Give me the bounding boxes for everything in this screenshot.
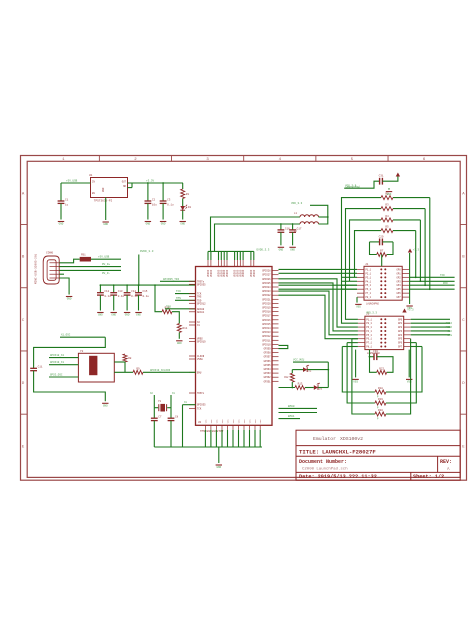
svg-text:GND: GND [102,187,105,192]
svg-text:GND: GND [111,314,116,317]
svg-text:Sheet: 1/2: Sheet: 1/2 [413,474,444,480]
svg-text:GP2: GP2 [398,326,403,329]
svg-text:MISO: MISO [446,326,453,329]
svg-text:GPIO19_X1: GPIO19_X1 [50,361,64,364]
svg-text:GND: GND [177,342,182,345]
svg-text:R20: R20 [378,409,383,412]
svg-text:DVDD_3.3: DVDD_3.3 [140,250,154,253]
svg-text:GND: GND [59,223,64,226]
svg-text:TDO: TDO [166,305,171,308]
svg-text:GPIO4: GPIO4 [264,368,272,371]
svg-text:P5_1: P5_1 [366,334,372,337]
svg-text:GPIO8: GPIO8 [264,352,272,355]
svg-text:10u: 10u [152,203,157,206]
svg-text:XDS100v2: XDS100v2 [340,436,363,442]
svg-text:GPIO3: GPIO3 [264,372,272,375]
svg-text:R18: R18 [378,387,383,390]
svg-text:GPIO2: GPIO2 [264,376,272,379]
svg-text:EMU1: EMU1 [288,415,295,418]
svg-text:VCC_MCU: VCC_MCU [293,359,305,362]
svg-text:GPIO19_XCLKIN: GPIO19_XCLKIN [150,369,171,372]
svg-text:GPIO24: GPIO24 [262,286,271,289]
svg-text:P4_1: P4_1 [366,330,372,333]
svg-text:PU_D+: PU_D+ [102,263,110,266]
svg-text:VSS: VSS [407,381,412,384]
svg-text:P8_1: P8_1 [366,296,372,299]
svg-text:TMS: TMS [176,297,181,300]
svg-text:CLK: CLK [447,330,452,333]
svg-text:C1: C1 [65,198,69,201]
svg-text:TMS320F28027PT: TMS320F28027PT [200,430,224,433]
svg-text:PU_D-: PU_D- [102,272,110,275]
svg-text:OUT: OUT [122,181,127,184]
svg-text:GPIO27: GPIO27 [262,274,271,277]
svg-text:VDD_3.3: VDD_3.3 [366,312,377,315]
svg-text:GP5: GP5 [398,338,403,341]
svg-text:TITLE:: TITLE: [299,448,319,455]
svg-text:C31: C31 [379,175,384,178]
svg-text:R5: R5 [385,226,389,229]
svg-text:GPIO35: GPIO35 [197,404,206,407]
svg-text:GP0: GP0 [398,318,403,321]
svg-text:EMU0: EMU0 [288,405,295,408]
svg-text:DVDD_3.3: DVDD_3.3 [257,248,270,251]
svg-text:GPIO19: GPIO19 [262,307,271,310]
svg-text:+5V_USB: +5V_USB [66,179,78,182]
svg-text:J1: J1 [365,263,369,266]
svg-text:R11: R11 [183,327,188,330]
svg-text:GPIO7: GPIO7 [264,356,272,359]
svg-text:+5V_USB: +5V_USB [98,256,110,259]
svg-text:U3: U3 [198,421,202,424]
svg-text:R4: R4 [385,215,389,218]
svg-text:TRSTn: TRSTn [197,392,205,395]
svg-text:C8: C8 [175,416,179,419]
svg-text:P1_1: P1_1 [366,268,372,271]
svg-text:GPIO12: GPIO12 [262,335,271,338]
svg-text:C29: C29 [379,235,384,238]
svg-text:R13: R13 [298,383,303,386]
svg-text:C13: C13 [118,290,123,293]
svg-text:R8: R8 [128,357,132,360]
svg-text:C15: C15 [143,290,148,293]
svg-text:GP1: GP1 [397,272,402,275]
svg-text:GPIO35: GPIO35 [197,283,206,286]
svg-text:LAUNCHXL-F28027F: LAUNCHXL-F28027F [322,448,376,455]
svg-text:C7: C7 [158,416,162,419]
svg-text:GND: GND [161,223,166,226]
svg-text:C12: C12 [104,290,109,293]
svg-text:GP4: GP4 [398,334,403,337]
svg-text:+3.3: +3.3 [407,309,414,312]
svg-text:C2: C2 [152,198,156,201]
svg-text:GPIO10: GPIO10 [262,343,271,346]
svg-text:R19: R19 [378,398,383,401]
svg-text:R3: R3 [385,204,389,207]
svg-text:Document Number:: Document Number: [299,459,347,465]
svg-text:MINI-USB-32005-201: MINI-USB-32005-201 [35,253,38,284]
svg-text:GND: GND [290,249,295,252]
svg-text:R9: R9 [136,367,140,370]
svg-text:P3_1: P3_1 [366,326,372,329]
svg-text:GPIO23: GPIO23 [262,290,271,293]
svg-text:0.1u: 0.1u [118,295,125,298]
svg-text:VDDIO: VDDIO [210,269,213,277]
svg-text:LAUNCHPAD: LAUNCHPAD [366,302,379,305]
svg-text:GPIO11: GPIO11 [262,339,271,342]
svg-text:P3_1: P3_1 [366,276,372,279]
svg-text:GP4: GP4 [397,284,402,287]
svg-text:GP6: GP6 [397,292,402,295]
svg-text:GND: GND [136,314,141,317]
svg-text:GPIO20: GPIO20 [262,302,271,305]
svg-text:GND: GND [67,298,72,301]
svg-text:C17: C17 [297,227,302,230]
svg-text:0.1u: 0.1u [143,295,150,298]
svg-text:CON6: CON6 [46,252,53,255]
svg-text:GP3: GP3 [398,330,403,333]
svg-text:GPIO15: GPIO15 [262,323,271,326]
svg-text:GP2: GP2 [397,276,402,279]
svg-text:GPIO22: GPIO22 [262,294,271,297]
svg-text:P6_1: P6_1 [366,288,372,291]
svg-text:GPIO9: GPIO9 [264,348,272,351]
svg-text:GPIO25: GPIO25 [262,282,271,285]
svg-text:GPIO19: GPIO19 [197,341,206,344]
svg-text:TCK: TCK [197,407,202,410]
svg-text:VDDIO: VDDIO [253,269,256,277]
svg-text:GPIO26: GPIO26 [262,278,271,281]
svg-text:C30: C30 [373,350,378,353]
svg-text:VDD_3.3: VDD_3.3 [291,202,303,205]
svg-text:Emulator: Emulator [313,436,336,442]
svg-text:TXD: TXD [440,274,445,277]
svg-text:GPIO28: GPIO28 [262,270,271,273]
svg-text:GPIO_OSC: GPIO_OSC [50,374,63,377]
svg-text:GPIO18_X2: GPIO18_X2 [50,354,64,357]
svg-text:GND: GND [216,466,221,469]
svg-text:P7_1: P7_1 [366,342,372,345]
svg-text:GPIO35_TDI: GPIO35_TDI [163,278,180,281]
svg-text:GPIO12: GPIO12 [197,302,206,305]
svg-text:VSS: VSS [353,381,358,384]
svg-text:C2000 LaunchPad.sch: C2000 LaunchPad.sch [302,467,348,472]
svg-text:GND: GND [103,405,108,408]
svg-text:GPIO6: GPIO6 [264,360,272,363]
svg-text:VDDIO: VDDIO [226,269,229,277]
svg-text:ADCA1: ADCA1 [197,311,205,314]
svg-text:Y2: Y2 [80,350,84,353]
svg-text:Date: 2019/5/13 ??? 11:32: Date: 2019/5/13 ??? 11:32 [299,474,377,480]
svg-text:GPIO16: GPIO16 [262,319,271,322]
svg-text:C11: C11 [38,366,43,369]
svg-text:REV:: REV: [440,459,452,465]
svg-text:GPIO18: GPIO18 [262,311,271,314]
svg-text:R1: R1 [186,193,190,196]
svg-text:P4_1: P4_1 [366,280,372,283]
svg-text:P2_1: P2_1 [366,322,372,325]
svg-text:MOSI: MOSI [446,322,453,325]
svg-text:+3.3: +3.3 [413,249,420,252]
svg-text:EMU: EMU [197,371,202,374]
svg-text:0.1u: 0.1u [104,295,111,298]
svg-text:VDDIO: VDDIO [242,269,245,277]
svg-text:GND: GND [387,193,392,196]
svg-text:GPIO17: GPIO17 [262,315,271,318]
svg-text:GPIO21: GPIO21 [262,298,271,301]
svg-text:TCK: TCK [176,290,181,293]
svg-text:U1: U1 [89,174,93,177]
svg-text:GP3: GP3 [397,280,402,283]
svg-text:GND: GND [103,223,108,226]
svg-text:D1: D1 [188,206,192,209]
svg-text:+3.3V: +3.3V [146,179,154,182]
svg-text:X1_OSC: X1_OSC [61,334,71,337]
svg-text:GP1: GP1 [398,322,403,325]
svg-text:L1: L1 [294,212,298,215]
svg-text:GPIO13: GPIO13 [262,331,271,334]
svg-text:R22: R22 [379,367,384,370]
svg-text:FB1: FB1 [81,254,86,257]
svg-text:R12: R12 [284,376,289,379]
svg-text:C3: C3 [167,198,171,201]
svg-text:GPIO14: GPIO14 [262,327,271,330]
svg-text:GP5: GP5 [397,288,402,291]
svg-text:0.1u: 0.1u [167,203,174,206]
svg-text:1u: 1u [65,203,69,206]
svg-text:GND: GND [125,314,130,317]
svg-text:TMS: TMS [197,296,202,299]
svg-text:TPS73633-PI: TPS73633-PI [94,200,113,203]
svg-text:GPIO1: GPIO1 [264,380,272,383]
svg-text:GND: GND [180,223,185,226]
svg-text:GP0: GP0 [397,268,402,271]
svg-text:VSSA: VSSA [197,358,203,361]
svg-text:GP6: GP6 [398,342,403,345]
svg-text:GND: GND [98,314,103,317]
svg-text:GP7: GP7 [398,346,403,349]
svg-text:VDD_3.3: VDD_3.3 [345,185,357,188]
svg-text:P1_1: P1_1 [366,318,372,321]
svg-text:P7_1: P7_1 [366,292,372,295]
svg-text:P6_1: P6_1 [366,338,372,341]
svg-text:GP7: GP7 [397,296,402,299]
svg-text:P8_1: P8_1 [366,346,372,349]
svg-text:R7: R7 [380,250,384,253]
svg-text:VSS: VSS [356,306,361,309]
svg-text:GPIO5: GPIO5 [264,364,272,367]
svg-text:P5_1: P5_1 [366,284,372,287]
svg-text:P2_1: P2_1 [366,272,372,275]
svg-text:RXD: RXD [443,282,448,285]
svg-text:GND: GND [279,249,284,252]
svg-text:Y1: Y1 [158,400,162,403]
svg-text:GND: GND [146,223,151,226]
svg-text:STE: STE [447,334,452,337]
